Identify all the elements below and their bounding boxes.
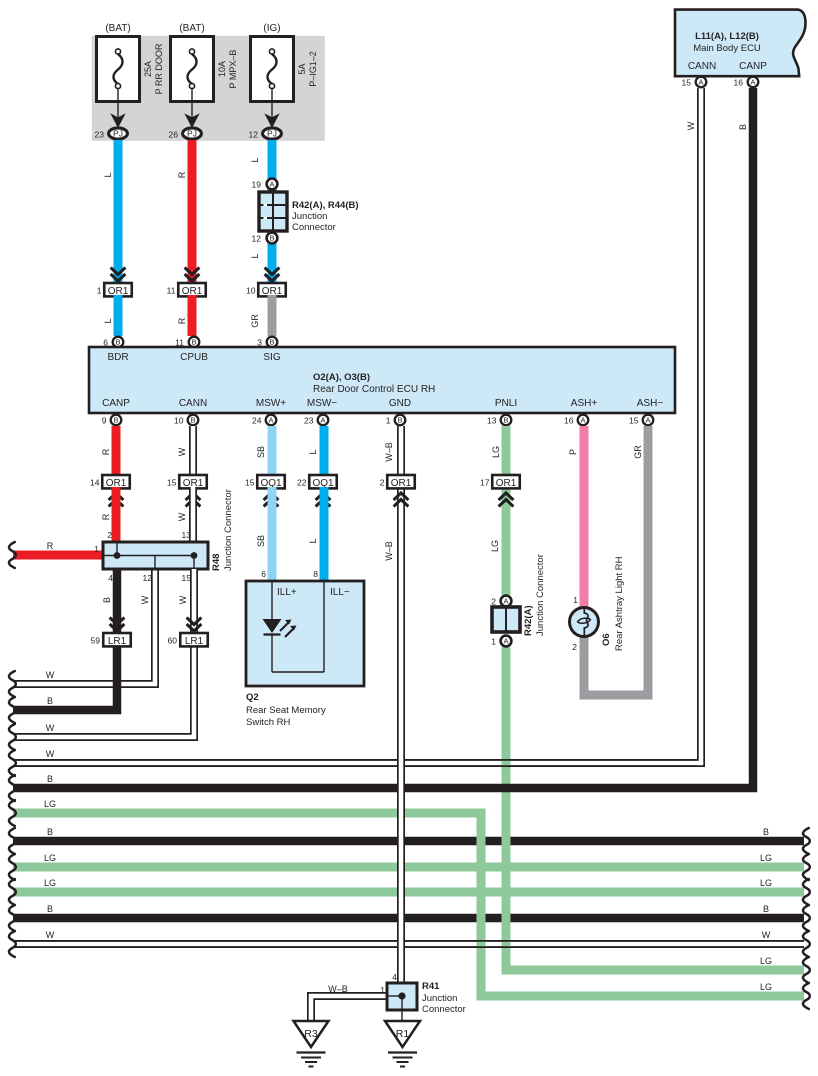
label R41 pin4 xyxy=(392,972,397,982)
label B bus right xyxy=(763,827,769,837)
wire W-B GND vertical xyxy=(397,426,405,983)
svg-text:15: 15 xyxy=(682,78,692,88)
label Main Body ECU xyxy=(693,43,761,54)
svg-text:1: 1 xyxy=(573,595,578,605)
junction connector R42(A) R44(B) grid xyxy=(259,179,287,244)
fuse 10A P MPX–B xyxy=(171,37,214,102)
junction connector R42(A) xyxy=(492,596,520,647)
wire W bus row3 from 60 LR1 xyxy=(9,646,194,751)
svg-text:6: 6 xyxy=(261,569,266,579)
wire LG bus row8 xyxy=(9,854,810,880)
terminal 3 B xyxy=(257,337,277,348)
svg-text:1: 1 xyxy=(97,286,102,296)
label R41 pin1 xyxy=(380,985,385,995)
label LG bus left xyxy=(44,878,56,888)
label O6 pin1 xyxy=(573,595,578,605)
svg-text:SIG: SIG xyxy=(263,352,280,363)
svg-text:R48: R48 xyxy=(211,554,222,571)
svg-text:R: R xyxy=(47,541,54,551)
svg-text:GR: GR xyxy=(250,314,260,328)
svg-text:A: A xyxy=(750,78,755,87)
arrow into 12 PJ xyxy=(266,115,279,128)
wire B R48 pin4 xyxy=(102,569,117,634)
svg-text:PNLI: PNLI xyxy=(495,398,517,409)
svg-text:LG: LG xyxy=(44,878,56,888)
label (BAT) xyxy=(179,23,204,34)
ECU L11(A) L12(B) Main Body ECU xyxy=(675,10,806,77)
svg-text:LG: LG xyxy=(490,540,500,552)
svg-text:PJ: PJ xyxy=(187,129,197,139)
label R42(A), R44(B) Junction Connector xyxy=(292,200,359,233)
svg-text:B: B xyxy=(102,597,112,603)
label pin 19 xyxy=(252,180,262,190)
svg-text:PJ: PJ xyxy=(267,129,277,139)
svg-text:B: B xyxy=(763,827,769,837)
label ILL- xyxy=(330,587,350,598)
svg-text:2: 2 xyxy=(107,530,112,540)
label Q2 Rear Seat Memory Switch RH xyxy=(246,692,326,728)
svg-text:1: 1 xyxy=(386,416,391,426)
svg-text:CANN: CANN xyxy=(688,61,716,72)
ground R1 xyxy=(385,1021,420,1067)
svg-text:24: 24 xyxy=(252,416,262,426)
svg-text:Junction: Junction xyxy=(292,211,327,222)
wire W bus row4 edge lines xyxy=(13,760,697,766)
svg-text:R: R xyxy=(101,513,111,520)
svg-text:W: W xyxy=(762,930,771,940)
label R42(A) pin2 xyxy=(491,597,496,607)
label B bus left xyxy=(47,827,53,837)
svg-text:10: 10 xyxy=(246,286,256,296)
connector 12 PJ xyxy=(249,128,282,140)
svg-text:2: 2 xyxy=(380,478,385,488)
wire R41 to ground R1 xyxy=(401,1010,403,1021)
svg-text:(IG): (IG) xyxy=(263,23,280,34)
svg-text:R42(A): R42(A) xyxy=(523,605,534,636)
svg-text:LG: LG xyxy=(760,853,772,863)
wire R to CPUB xyxy=(177,295,192,336)
svg-text:W: W xyxy=(177,447,187,456)
svg-text:12: 12 xyxy=(249,130,259,140)
svg-text:LG: LG xyxy=(760,878,772,888)
svg-text:12: 12 xyxy=(143,573,153,583)
label LG bus left xyxy=(44,853,56,863)
label W bus left xyxy=(46,670,55,680)
svg-text:SB: SB xyxy=(256,446,266,458)
svg-text:P MPX–B: P MPX–B xyxy=(228,50,238,89)
svg-text:PJ: PJ xyxy=(113,129,123,139)
svg-text:O6: O6 xyxy=(601,633,612,646)
terminal 24 A xyxy=(252,415,276,426)
svg-text:SB: SB xyxy=(256,535,266,547)
wire GR to SIG xyxy=(250,295,272,336)
label Q2 pin6 xyxy=(261,569,266,579)
label R48 Junction Connector xyxy=(211,489,234,571)
svg-text:A: A xyxy=(645,416,650,425)
ground R3 xyxy=(294,1021,329,1067)
label (IG) xyxy=(263,23,280,34)
svg-text:10: 10 xyxy=(174,416,184,426)
svg-text:R1: R1 xyxy=(396,1028,410,1040)
svg-text:1: 1 xyxy=(491,637,496,647)
svg-text:(BAT): (BAT) xyxy=(179,23,204,34)
wire L col3 upper xyxy=(268,140,277,192)
label R48 pin13 xyxy=(182,530,192,540)
label R48 pin15 xyxy=(182,573,192,583)
svg-text:B: B xyxy=(269,234,274,243)
svg-text:8: 8 xyxy=(313,569,318,579)
svg-text:B: B xyxy=(503,416,508,425)
svg-text:L: L xyxy=(103,318,113,323)
label Rear Door Control ECU RH xyxy=(313,384,435,395)
chevron from 15 OQ1 xyxy=(264,493,279,507)
wire L col1 xyxy=(114,140,123,283)
label W bus left xyxy=(46,723,55,733)
label BDR xyxy=(107,352,128,363)
svg-text:LG: LG xyxy=(491,446,501,458)
label MSW+ xyxy=(256,398,286,409)
lamp O6 Rear Ashtray Light RH xyxy=(570,607,599,637)
label 5A P–IG1–2 xyxy=(297,51,318,87)
svg-text:Junction Connector: Junction Connector xyxy=(223,489,234,571)
label CANN mb xyxy=(688,61,716,72)
terminal 16 A mb xyxy=(734,77,759,88)
wire B bus row7 xyxy=(9,828,810,854)
wire W R48 pin15 xyxy=(178,569,194,634)
junction connector R48 xyxy=(103,542,208,569)
label LG bus right xyxy=(760,982,772,992)
label Q2 pin8 xyxy=(313,569,318,579)
svg-text:LG: LG xyxy=(44,799,56,809)
svg-text:W: W xyxy=(177,512,187,521)
svg-text:15: 15 xyxy=(182,573,192,583)
svg-text:B: B xyxy=(47,904,53,914)
svg-text:A: A xyxy=(269,180,274,189)
chevron from 2 OR1 xyxy=(394,493,409,507)
label 10A P MPX–B xyxy=(217,50,238,89)
wire B bus row2 to 59 LR1 xyxy=(9,646,117,723)
svg-text:22: 22 xyxy=(297,478,307,488)
label W bus left xyxy=(46,930,55,940)
svg-text:A: A xyxy=(320,416,325,425)
LED illumination symbol xyxy=(263,619,297,637)
label LG bus right xyxy=(760,956,772,966)
label R48 pin1 xyxy=(94,544,99,554)
svg-text:19: 19 xyxy=(252,180,262,190)
svg-text:9: 9 xyxy=(102,416,107,426)
svg-text:W–B: W–B xyxy=(384,541,394,561)
svg-text:59: 59 xyxy=(91,636,101,646)
wire SB MSW+ xyxy=(256,426,272,475)
svg-text:ASH−: ASH− xyxy=(637,398,664,409)
label PNLI xyxy=(495,398,517,409)
svg-text:P: P xyxy=(568,449,578,455)
label CANP xyxy=(102,398,130,409)
label B bus right xyxy=(763,904,769,914)
svg-text:16: 16 xyxy=(564,416,574,426)
label SIG xyxy=(263,352,280,363)
label GND xyxy=(389,398,411,409)
svg-text:B: B xyxy=(269,338,274,347)
svg-text:4: 4 xyxy=(392,972,397,982)
label R48 pin2 xyxy=(107,530,112,540)
svg-text:L11(A), L12(B): L11(A), L12(B) xyxy=(695,31,759,42)
chevron from 22 OQ1 xyxy=(316,493,331,507)
svg-text:ASH+: ASH+ xyxy=(571,398,598,409)
wire LG bus row6 down to row13 xyxy=(9,800,810,1009)
svg-text:15: 15 xyxy=(167,478,177,488)
svg-text:10A: 10A xyxy=(217,61,227,77)
label O6 pin2 xyxy=(572,642,577,652)
svg-text:13: 13 xyxy=(487,416,497,426)
svg-text:W: W xyxy=(178,595,188,604)
connector 59 LR1 xyxy=(91,633,131,647)
svg-text:A: A xyxy=(503,597,508,606)
svg-text:Main Body ECU: Main Body ECU xyxy=(693,43,761,54)
wire W bus row4 to Main Body ECU CANN xyxy=(9,88,701,776)
svg-text:W: W xyxy=(46,749,55,759)
svg-text:LG: LG xyxy=(760,956,772,966)
wire L col3 lower xyxy=(268,231,277,283)
svg-text:Connector: Connector xyxy=(292,222,336,233)
wire P ASH+ xyxy=(568,426,584,608)
svg-text:B: B xyxy=(47,696,53,706)
svg-text:B: B xyxy=(190,416,195,425)
svg-text:4: 4 xyxy=(108,573,113,583)
wire W bus row11 edge lines xyxy=(13,941,804,947)
wire L MSW- xyxy=(308,426,324,475)
svg-text:MSW+: MSW+ xyxy=(256,398,286,409)
label pin 12 xyxy=(252,234,262,244)
terminal 6 B xyxy=(103,337,123,348)
svg-text:60: 60 xyxy=(168,636,178,646)
svg-text:L: L xyxy=(250,157,260,162)
svg-text:O2(A), O3(B): O2(A), O3(B) xyxy=(313,372,370,383)
label 25A P RR DOOR xyxy=(143,43,164,94)
label R42(A) Junction Connector xyxy=(523,554,546,636)
chevron from 14 OR1 xyxy=(109,493,124,507)
svg-text:LR1: LR1 xyxy=(185,636,204,647)
svg-text:26: 26 xyxy=(169,130,179,140)
label B bus left xyxy=(47,904,53,914)
connector 2 OR1 xyxy=(380,475,415,489)
svg-text:15: 15 xyxy=(245,478,255,488)
svg-text:13: 13 xyxy=(182,530,192,540)
wire R into R48 pin1 xyxy=(9,541,103,568)
svg-text:B: B xyxy=(47,774,53,784)
terminal 10 B xyxy=(174,415,198,426)
svg-text:B: B xyxy=(191,338,196,347)
label CPUB xyxy=(180,352,208,363)
label W bus left xyxy=(46,749,55,759)
svg-text:B: B xyxy=(397,416,402,425)
terminal 15 A xyxy=(629,415,653,426)
label B mb xyxy=(738,124,748,130)
connector 22 OQ1 xyxy=(297,475,337,489)
wire W bus row11 xyxy=(9,931,810,957)
svg-text:P RR DOOR: P RR DOOR xyxy=(154,43,164,94)
svg-text:B: B xyxy=(47,827,53,837)
connector 1 OR1 xyxy=(97,283,132,297)
connector 26 PJ xyxy=(169,128,202,140)
label LG bus left xyxy=(44,799,56,809)
connector 17 OR1 xyxy=(480,475,520,489)
svg-text:R42(A), R44(B): R42(A), R44(B) xyxy=(292,200,359,211)
svg-text:Rear Seat Memory: Rear Seat Memory xyxy=(246,705,326,716)
svg-text:GR: GR xyxy=(633,445,643,459)
wire B bus row5 to Main Body ECU CANP xyxy=(9,88,753,801)
svg-text:2: 2 xyxy=(491,597,496,607)
label LG bus right xyxy=(760,853,772,863)
svg-text:25A: 25A xyxy=(143,61,153,77)
junction connector R41 xyxy=(387,983,417,1010)
wire W bus row1 from R48 pin12 xyxy=(9,569,155,697)
svg-text:16: 16 xyxy=(734,78,744,88)
svg-text:OR1: OR1 xyxy=(496,478,517,489)
svg-text:2: 2 xyxy=(572,642,577,652)
svg-text:L: L xyxy=(308,449,318,454)
wire L to BDR xyxy=(103,295,118,336)
wire SB to Q2 xyxy=(256,487,272,581)
wire fuse output 23 xyxy=(117,89,119,119)
label CANN xyxy=(179,398,207,409)
svg-text:14: 14 xyxy=(90,478,100,488)
svg-text:R: R xyxy=(101,448,111,455)
connector 15 OR1 xyxy=(167,475,207,489)
svg-text:Rear Door Control ECU RH: Rear Door Control ECU RH xyxy=(313,384,435,395)
svg-text:R: R xyxy=(177,317,187,324)
svg-text:MSW−: MSW− xyxy=(307,398,337,409)
svg-text:W: W xyxy=(46,723,55,733)
svg-text:12: 12 xyxy=(252,234,262,244)
label R41 Junction Connector xyxy=(422,981,466,1015)
svg-text:CANP: CANP xyxy=(102,398,130,409)
svg-text:23: 23 xyxy=(95,130,105,140)
label (BAT) xyxy=(105,23,130,34)
svg-text:1: 1 xyxy=(94,544,99,554)
chevron into 60 LR1 xyxy=(187,618,202,632)
terminal 23 A xyxy=(304,415,328,426)
chevron from 17 OR1 xyxy=(499,493,514,507)
svg-text:B: B xyxy=(763,904,769,914)
label LG lower xyxy=(490,540,500,552)
label L11(A), L12(B) xyxy=(695,31,759,42)
label W pin12 xyxy=(140,595,150,604)
connector 60 LR1 xyxy=(168,633,208,647)
svg-text:W–B: W–B xyxy=(384,442,394,462)
wire R to R48 pin2 xyxy=(101,487,116,542)
wire R col2 xyxy=(188,140,197,283)
svg-text:LG: LG xyxy=(760,982,772,992)
label W-B lower xyxy=(384,541,394,561)
wire W CANN xyxy=(177,426,193,475)
svg-text:A: A xyxy=(268,416,273,425)
label B bus left xyxy=(47,696,53,706)
svg-text:ILL+: ILL+ xyxy=(277,587,297,598)
connector 14 OR1 xyxy=(90,475,130,489)
connector 10 OR1 xyxy=(246,283,286,297)
label O6 Rear Ashtray Light RH xyxy=(601,556,625,651)
svg-text:CANN: CANN xyxy=(179,398,207,409)
terminal 13 B xyxy=(487,415,511,426)
label W bus right xyxy=(762,930,771,940)
label L col1 xyxy=(103,172,113,177)
svg-text:A: A xyxy=(698,78,703,87)
terminal 11 B xyxy=(175,337,199,348)
wire W to R48 pin13 xyxy=(177,487,193,542)
svg-text:P–IG1–2: P–IG1–2 xyxy=(308,51,318,87)
label W-B R41 xyxy=(328,984,348,994)
chevron into 10 OR1 xyxy=(265,268,280,282)
svg-text:15: 15 xyxy=(629,416,639,426)
connector 23 PJ xyxy=(95,128,128,140)
svg-text:R: R xyxy=(177,171,187,178)
chevron into 11 OR1 xyxy=(185,268,200,282)
wire B bus row10 xyxy=(9,905,810,931)
svg-text:W: W xyxy=(46,670,55,680)
switch Q2 Rear Seat Memory Switch RH xyxy=(246,581,364,686)
wire LG PNLI upper xyxy=(491,426,506,595)
svg-text:B: B xyxy=(113,416,118,425)
svg-text:ILL−: ILL− xyxy=(330,587,350,598)
svg-text:L: L xyxy=(103,172,113,177)
svg-text:B: B xyxy=(738,124,748,130)
wire GR ASH- xyxy=(584,426,648,695)
svg-text:1: 1 xyxy=(380,985,385,995)
wire fuse output 26 xyxy=(191,89,193,119)
wire LG bus row9 xyxy=(9,879,810,905)
svg-text:OR1: OR1 xyxy=(391,478,412,489)
label L col3 lower xyxy=(250,253,260,258)
label ASH- xyxy=(637,398,664,409)
arrow into 23 PJ xyxy=(112,115,125,128)
svg-text:GND: GND xyxy=(389,398,411,409)
wire W-B R41 pin1 to R3 xyxy=(311,996,387,1021)
svg-text:Junction Connector: Junction Connector xyxy=(535,554,546,636)
svg-text:LG: LG xyxy=(44,853,56,863)
svg-text:CPUB: CPUB xyxy=(180,352,208,363)
chevron from 15 OR1 xyxy=(186,493,201,507)
svg-text:LR1: LR1 xyxy=(108,636,127,647)
terminal 15 A mb xyxy=(682,77,707,88)
connector 15 OQ1 xyxy=(245,475,285,489)
label CANP mb xyxy=(739,61,767,72)
label MSW- xyxy=(307,398,337,409)
label W mb xyxy=(686,121,696,130)
svg-text:17: 17 xyxy=(480,478,490,488)
wire R CANP xyxy=(101,426,116,475)
svg-text:Rear Ashtray Light RH: Rear Ashtray Light RH xyxy=(614,556,625,651)
terminal 1 B xyxy=(386,415,406,426)
label L col3 upper xyxy=(250,157,260,162)
svg-text:A: A xyxy=(580,416,585,425)
svg-text:Connector: Connector xyxy=(422,1004,466,1015)
wire L to Q2 xyxy=(308,487,324,581)
svg-text:Switch RH: Switch RH xyxy=(246,717,290,728)
label B bus left xyxy=(47,774,53,784)
svg-text:W: W xyxy=(686,121,696,130)
label ASH+ xyxy=(571,398,598,409)
svg-text:Junction: Junction xyxy=(422,993,457,1004)
svg-text:W: W xyxy=(140,595,150,604)
ECU O2(A) O3(B) Rear Door Control ECU RH xyxy=(89,347,675,413)
svg-text:CANP: CANP xyxy=(739,61,767,72)
terminal 16 A xyxy=(564,415,588,426)
fuse 25A P RR DOOR xyxy=(97,37,140,102)
svg-text:5A: 5A xyxy=(297,63,307,74)
svg-text:A: A xyxy=(503,637,508,646)
wire LG PNLI vertical to bus row12 xyxy=(506,647,810,983)
